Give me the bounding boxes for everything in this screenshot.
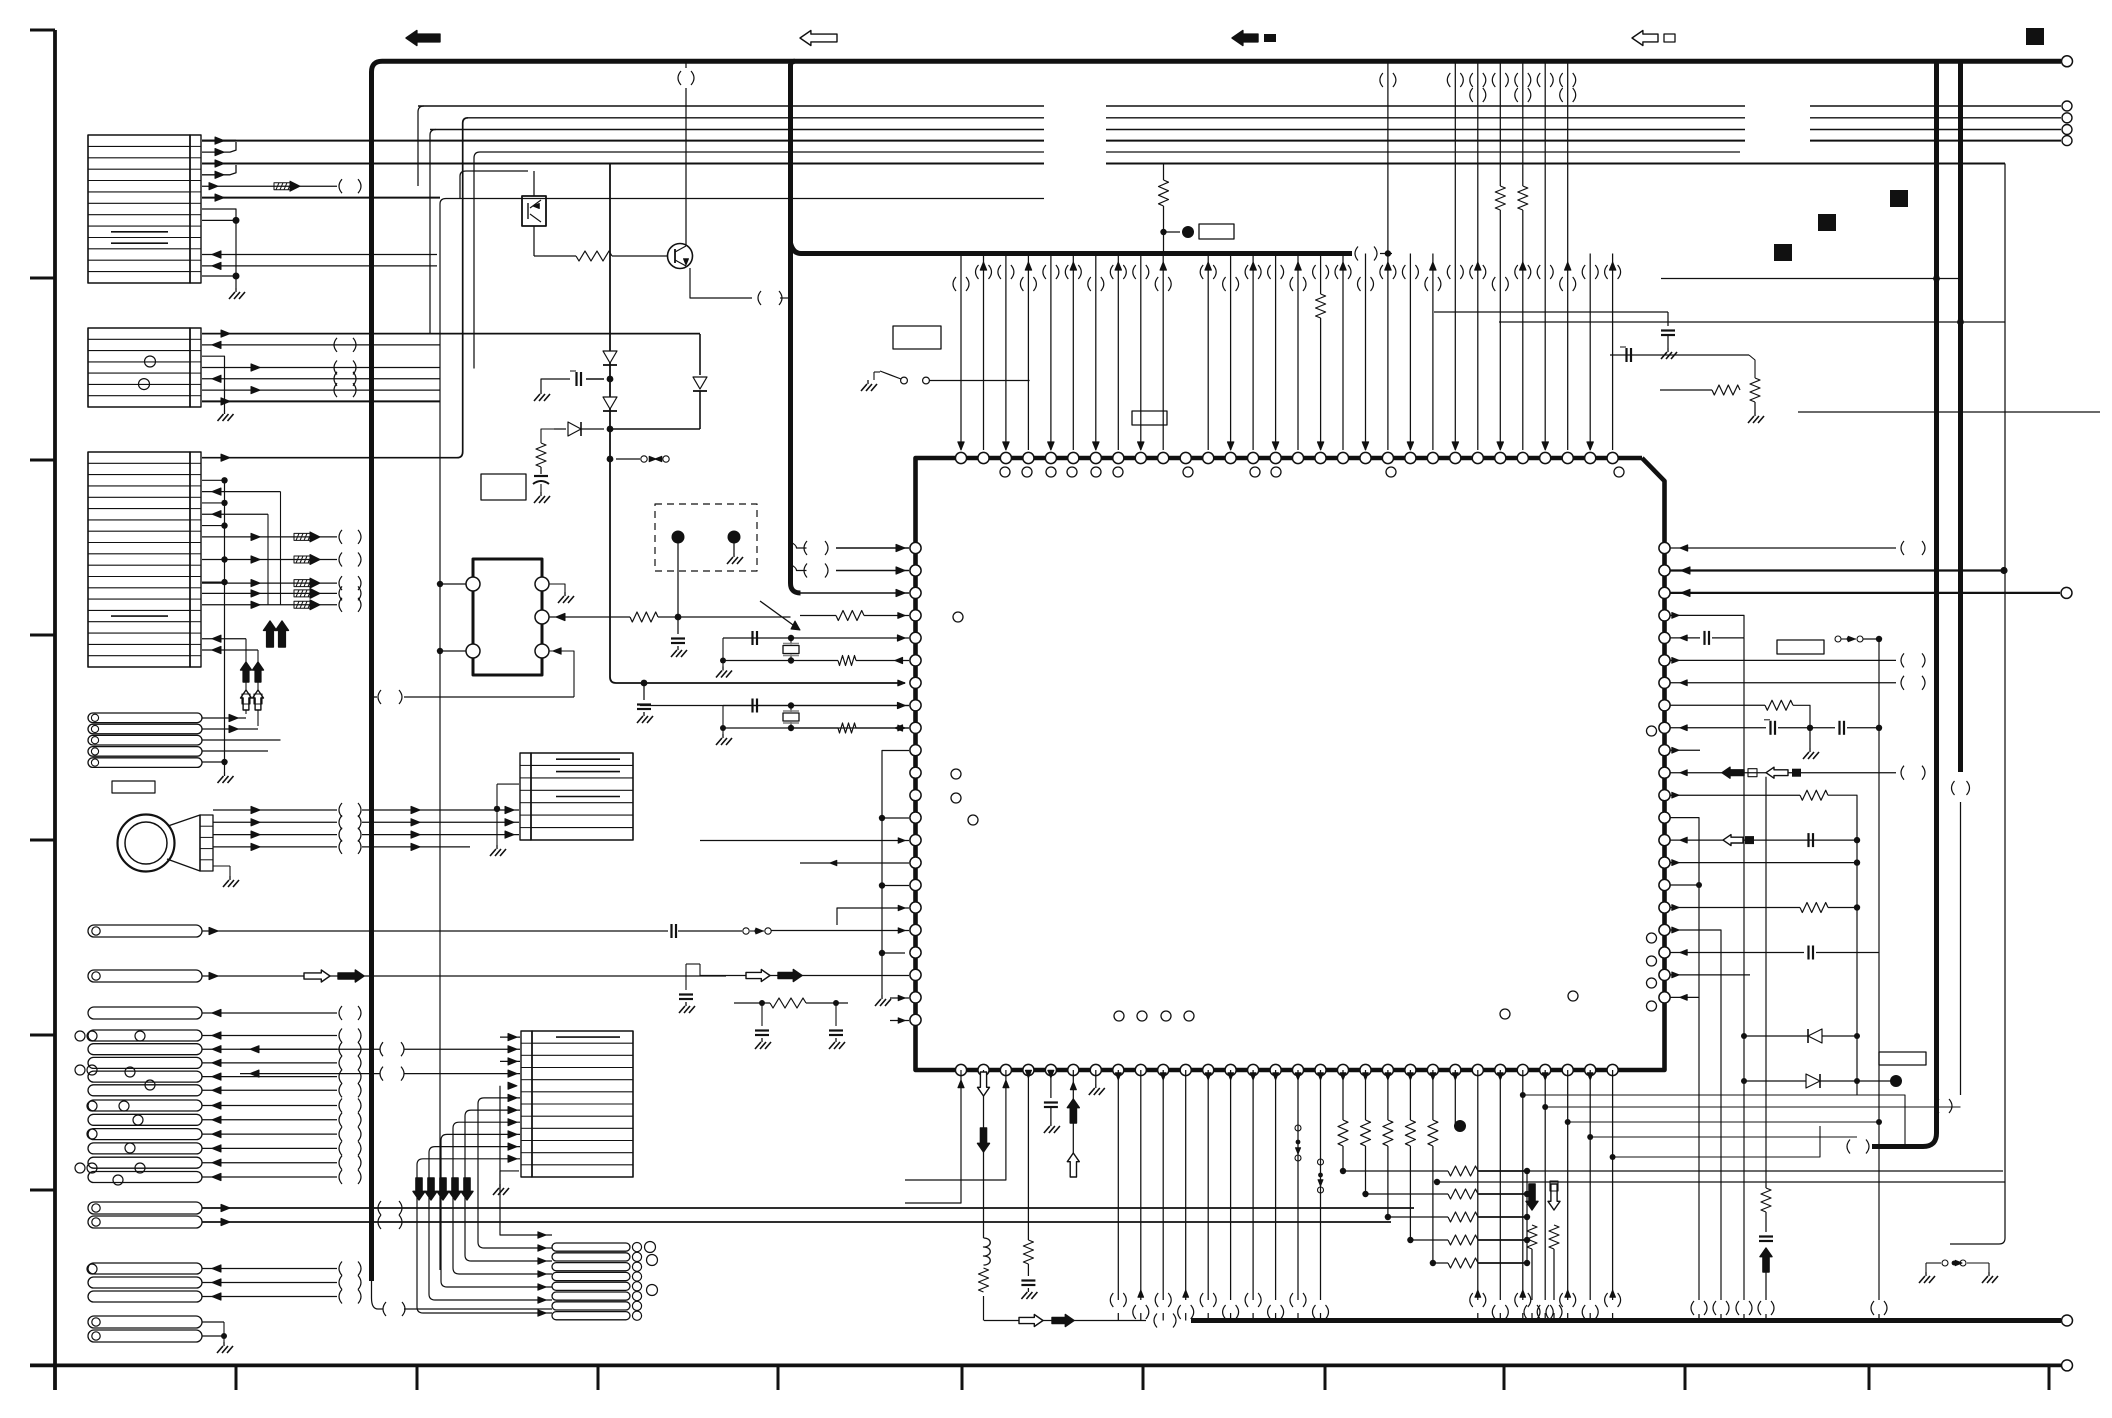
break in +5V rail [1847,1140,1869,1154]
vertical net x=1744 [1743,638,1745,1300]
jumper vertical JV1 [1295,1125,1301,1161]
label box L4 [1132,411,1167,425]
jumper J4 [616,456,669,462]
break CN2 pin2 [334,338,356,352]
wire U2 left pins stubs [437,581,466,654]
wire U1 R3 (thick) [1670,589,2060,596]
wire CN2 pin4 (out) [202,364,440,371]
crystal X2 [783,702,799,731]
wire diode branch right [699,334,701,375]
wire R4 to junction [658,614,791,621]
wire U1 R19 cap [1670,946,1879,960]
test point TP2 [727,531,743,565]
jumper J2 [1835,636,1882,642]
wire U1 R14 arrow cap [1670,833,1860,847]
break y=697 [378,690,402,704]
connector CN3 body [88,452,201,667]
resistor R15 [536,443,546,467]
border ruler bottom line [30,1364,2061,1368]
wire CN1 pin4 to pin3 bus [202,165,236,178]
wire R15 to C18 [540,467,542,474]
signal arrow pair up (solid) [264,621,289,647]
ground R9 [1748,402,1764,423]
wire P2 out [202,972,726,979]
wire U1 pin L15 [800,860,909,865]
connector P3 (pill) [88,1007,202,1019]
wires CN3 signal outputs with coded arrows [202,530,361,612]
bus line y=130 [430,125,2072,135]
wire U1 R1 [1670,541,1925,555]
spindle motor lead cone [167,815,200,871]
wire U1 R2 (thick) [1670,567,2008,574]
IC U1 misc pads [1500,991,1578,1019]
wire CN2 pin5 (in) [202,375,440,382]
wires spindle motor phases [213,803,519,854]
wires P8 to ground [202,1322,233,1353]
break in GND feed wire [1154,1314,1176,1328]
wires CN5 rows [240,1034,520,1163]
connector CN2 key circle 2 [139,379,150,390]
sheet arrow A2 (open) [800,31,837,46]
wire U1 R13 [1670,818,1699,885]
wire xtal1 net b [723,656,909,666]
opto-device U3 box [522,196,546,226]
resistor R3 (base) [576,251,612,261]
wire y=390 [1660,389,1712,391]
wires U1 left bottom group [890,995,909,1023]
wires CN4 pins [202,714,281,765]
wire diode net a [1741,1033,1860,1039]
label box L7 [1879,1052,1926,1065]
label box L3 [893,326,941,349]
osc caps C14 C15 [755,1000,845,1049]
tap y=1122 [1565,1119,1882,1125]
signal arrow up solid small [1760,1248,1772,1300]
diode D4 [693,377,707,429]
signal arrow (open) on GND feed [1019,1315,1043,1327]
wire VDD rail stub [1380,253,1392,255]
wires U1 B8-B12 [1110,1070,1216,1321]
connector P1 (pill) [88,925,202,937]
black square M1 [1774,244,1792,261]
wire Q1 collector to rail [685,61,687,68]
wire U1 R12 res [1670,790,1857,1095]
bus line y=106 [418,101,2072,111]
bus line y=141 [202,136,2072,146]
wire y=697 stub to bus [372,696,378,698]
break CN2 pin5 [334,372,356,386]
wire CN1 pin7 [202,209,236,220]
capacitor C16 [1759,1212,1773,1241]
connector CN5 body [521,1031,633,1177]
connector P7 (3 pills) [87,1263,202,1302]
dashed option box [655,504,757,571]
capacitor C12 (pol) [1620,347,1631,362]
wire CN1 pin2 to pin1 bus [202,142,236,156]
connector P2 (pill) [88,970,202,982]
resistor R10 [1712,385,1740,395]
capacitor C11 [1661,312,1675,348]
wire U1 pin L7 [898,680,905,686]
wire y=312 right band [1434,311,1668,313]
wire bundle CN5 to CN6 [417,1098,552,1316]
ground C6 [671,646,687,657]
label box (grey) [112,781,155,793]
resistor R8 [1313,254,1329,451]
wire D6 feed [541,429,554,443]
wire CN2 pin7 (thick out) [202,398,440,405]
wire P1 out [202,927,668,934]
net +B top rail (thick) [372,61,2062,1281]
wire CN3 pin4 (in) [202,488,281,605]
break CN2 pin4 [334,361,356,375]
break in bus wire [383,1302,405,1316]
wire U1 R5 with cap [1670,631,1744,645]
wires U1 B13-B17 [1223,1070,1329,1321]
wire U1 pin L14 [700,838,909,843]
wire right margin vertical [1950,164,2005,1245]
wires P5 [202,1099,361,1185]
wire U1 B5 cap [1044,1070,1060,1133]
long net y=1182 [1434,1179,2005,1185]
signal arrow solid osc [778,970,802,982]
wire U2 top-right pin to ground [549,584,574,603]
wire CN1 pin13 to ground [202,273,240,289]
signal arrows down (solid, 5x) [413,1178,473,1200]
module U2 pin circles [466,577,549,658]
wire CN2 pin6 (out) [202,387,440,394]
black square M2 [1818,214,1836,231]
vertical tie x=882 [879,751,909,996]
wire U1 pin L9 [790,725,909,731]
diode D6 [554,422,604,436]
wire U1 R4 [1670,613,1744,638]
wires CN3 even pins to common [202,477,228,772]
wire CN1 pin12 input [202,262,437,269]
bus line y=152 [480,151,1740,153]
connector CN2 body [88,328,201,407]
diode D5 [603,397,617,411]
wire opto emitter [534,226,576,256]
wire Q1 emitter down [690,268,791,305]
resistor R14 [1546,1225,1562,1321]
wire mid vertical [610,164,905,684]
ground CN1 [229,288,245,299]
connector group P5 (6 pills) [75,1100,202,1185]
test point TP1 [672,531,685,615]
transistor Q1 [668,244,693,269]
wire U1 R11 arrows [1670,766,1925,780]
ground spindle [213,866,239,887]
signal arrows mixed (solid+open) [241,662,264,710]
wire bus to lower blocks [404,1308,552,1310]
ground IC2 [490,836,506,856]
IC U1 NC pads row [1114,1011,1194,1021]
bus line y=118 [468,113,2072,123]
ground CN4 common [218,772,234,783]
resistor R5 chain [1159,164,1195,254]
net +5V right rail (thick) [1872,61,1937,1146]
break Q1 collector [678,71,694,85]
wire diode merge [610,428,700,430]
adjust arrow diagonal [760,601,800,630]
wire xtal1 gnd link [716,638,732,678]
driver block IC2 body [520,753,633,840]
junction dots on x=610 [607,376,614,463]
wire U1 R16 gnd [1670,882,1702,888]
resistor R11 [734,998,848,1008]
IC U1 left pins [910,542,921,1025]
wire continuation of left bus [372,1281,384,1309]
label box L6 [1777,640,1824,654]
label box L8 [481,474,526,500]
wire U1 R10 [1670,747,1700,753]
wire U1 B4 res-cap [1021,1070,1037,1299]
jumper J1 [743,928,771,934]
IC U1 body outline (thick) [916,458,1665,1070]
wire U2 mid-right pin input [549,613,630,620]
ground C17 [534,390,550,401]
wire U1 B1 [905,1070,964,1203]
test point TP3 [1890,1075,1902,1087]
wire CN1 pin5 signal [202,181,337,191]
tap y=1107 [1542,1104,1960,1110]
signal arrow down (solid) [1526,1184,1538,1210]
wire P1 tail [771,930,862,932]
ground CN5 [493,1171,519,1195]
signal arrow solid on P2 [338,970,364,982]
wire y=412 right [1798,411,2100,413]
wire feed to opto [460,171,534,199]
wire U1 pin L18 [862,928,909,933]
break CN2 pin6 [334,383,356,397]
signal arrow open on P2 [304,970,330,982]
wires CN3 lower pins [202,635,258,726]
wires P7 [202,1262,361,1304]
border ruler left ticks [30,30,55,1190]
wire into GND rail [984,1320,1146,1322]
vertical net x=1766 [1765,777,1767,1185]
wire U1 R8 res [1670,700,1810,728]
spindle motor body [118,815,175,872]
wire U1 R20 [1670,972,1750,978]
label box L5 [1199,224,1234,239]
connector group P4 (5 pills) [75,1030,202,1096]
wire CN1 pin1 (bus 140.6) [202,137,236,144]
wire U1 B3 [905,1070,1009,1180]
sheet arrow A4 (open) with tab [1632,31,1675,46]
wire xtal2 net b [723,723,909,733]
capacitor C5 [637,683,651,709]
net +3.3V right rail (thick) [1958,61,1963,772]
wire Q1 collector up [685,88,687,246]
wire xtal1 net a [723,631,909,645]
IC U1 right pins [1659,542,1670,1003]
switch SW1 [861,371,1030,391]
ground R9row [1803,728,1819,759]
diode D1 [1808,1029,1822,1043]
junction dot mid [641,680,648,687]
crystal X1 [783,635,799,664]
wire to Q1 base [612,255,668,257]
border ruler left line [53,30,57,1390]
break in +3.3V rail [1952,781,1970,795]
wire U1 R18 [1670,927,1721,1300]
wire U1 pin L8 [640,703,909,709]
break in VDD rail [1355,247,1377,261]
wires top rail feeds [1380,61,1576,256]
border ruler bottom ticks [236,1365,2049,1390]
break CN1 pin5 [339,179,361,193]
wire U1 R6 [1670,653,1925,667]
resistor ladder RN1 [1338,1070,1530,1268]
wire U1 R15 [1670,859,1860,865]
tap y=1137 [1587,1134,1857,1140]
IC U1 top inner pads [1000,467,1624,477]
ladder common vertical [1526,1171,1528,1263]
jumper J3 with grounds [1919,1260,1998,1283]
wire CN1 pin11 input [202,251,437,258]
IC U1 right inner pads [1647,726,1657,1011]
wire U2 bottom-right pin [549,648,574,697]
vertical net x=1699 [1698,885,1700,1300]
wire U1 B6 arrows [1067,1070,1079,1177]
wire U1 osc pins [700,964,909,976]
connector CN4 (5-pin inline) [88,713,202,767]
wires VDD bus to U1 top pins [953,254,1621,451]
wire +3.3V continuation [1960,802,1962,1095]
wire CN6 row7 [500,1086,552,1238]
wire U1 pin L4 [800,611,909,621]
wire CN1 pin6 (thick) [202,194,440,201]
net GND rail terminal circle [2062,1315,2073,1326]
wire ladder out [1527,1170,2003,1172]
wires U1 left top group [791,541,910,597]
connector P6 (2 pills) [88,1202,202,1228]
ground CN2 [218,410,234,421]
connector P8 (2 pills) [88,1316,202,1342]
net +B rail terminal circle [2062,56,2073,67]
border ruler bottom-right terminal circle [2062,1360,2073,1371]
wire y=355 right [1610,355,1755,378]
wire bus corner x=418 [418,106,424,186]
spindle connector column [200,815,213,871]
test point TP4 [1453,1070,1467,1132]
black square M3 [1890,190,1908,207]
sheet arrow A3 (solid) with tab [1232,31,1276,46]
resistor R4 [630,612,658,622]
wire CN3 pin1 (thick out) [202,118,468,462]
wire y=697 net [404,696,574,698]
wire bus corner x=474 [474,152,480,369]
break P3 [339,1006,361,1020]
wire IC2 aux [494,784,519,836]
resistor R9 [1750,378,1760,402]
diode D3 [603,351,617,365]
jumper vertical JV2 [1318,1159,1324,1193]
module U2 body (thick outline) [473,559,542,675]
ground C11 [1661,348,1677,359]
wire U1 R21 [1670,995,1699,1001]
terminal circle R3 [2061,587,2072,598]
resistor R13 [1524,1225,1540,1321]
wire horizontal y=198.5 [440,199,1044,1271]
wire U1 B7 gnd [1089,1070,1105,1095]
tap y=1157 [1610,1126,1820,1160]
diode D2 [1806,1074,1820,1088]
IC U1 top pins [955,452,1618,463]
ground tie x=882 [875,995,891,1006]
wire bus corner x=430 [430,130,436,335]
wire U1 pin L17 [837,905,909,925]
wire U1 R9 caps [1670,720,1882,735]
wire U1 B2 chain [978,1070,991,1321]
osc cap C13 [679,964,700,1013]
wires P4 [202,1029,361,1098]
wire CN2 pin3 [202,356,225,410]
bus line y=164 [202,163,2005,165]
ground C5 [637,712,653,723]
sheet mark black square [2026,28,2044,45]
wire P6b long [202,1215,1391,1229]
wire y=278 right [1661,275,1958,282]
signal arrow (solid) on GND feed [1052,1315,1074,1327]
tap y=1095 [1520,1092,1905,1147]
vertical net x=1879 [1878,639,1880,1300]
IC U1 left inner pads [951,612,978,825]
wire xtal2 net a [723,699,909,713]
wire CN1 pin8 junction [202,217,240,276]
capacitor C (inline) [672,924,677,938]
wire CN2 pin1 (thick out) [202,330,700,337]
wire CN3 pin6 (in) [202,511,268,605]
bottom breaks right bundle [1691,1099,1952,1315]
net GND bottom rail (thick) [1191,1318,2061,1323]
connector CN2 key circle 1 [145,356,156,367]
resistor R12 [1761,1185,1771,1212]
wire P3 [202,1009,337,1016]
connector CN1 body [88,135,201,283]
wire CN1 pin3 (bus 163.5) [202,160,236,167]
connector CN6 (8-pin pills) [552,1242,658,1321]
capacitor C17 (pol) [541,371,604,390]
wire U1 R17 res [1670,903,1860,913]
wire U1 R7 [1670,676,1925,690]
ground C18 [534,492,550,503]
wire y=322 right [1499,319,2005,326]
wire P1 cont [678,930,742,932]
wire CN2 pin2 (in) [202,341,440,348]
capacitor C6 [671,617,685,643]
wire diode net b [1741,1078,1890,1084]
net VDD rail (thick, left drop) [791,61,1353,593]
wires join GND rail right [1699,1314,1879,1321]
wire xtal2 gnd link [716,706,732,746]
sheet arrow A1 (solid) [406,31,440,46]
signal arrow down open [1548,1181,1560,1210]
signal arrow open osc [746,970,770,982]
wire P6a long [202,1201,1414,1215]
IC U1 bottom pins [955,1064,1618,1075]
capacitor C18 (pol) [533,476,549,492]
wires U1 B24-B30 [1470,1070,1621,1321]
